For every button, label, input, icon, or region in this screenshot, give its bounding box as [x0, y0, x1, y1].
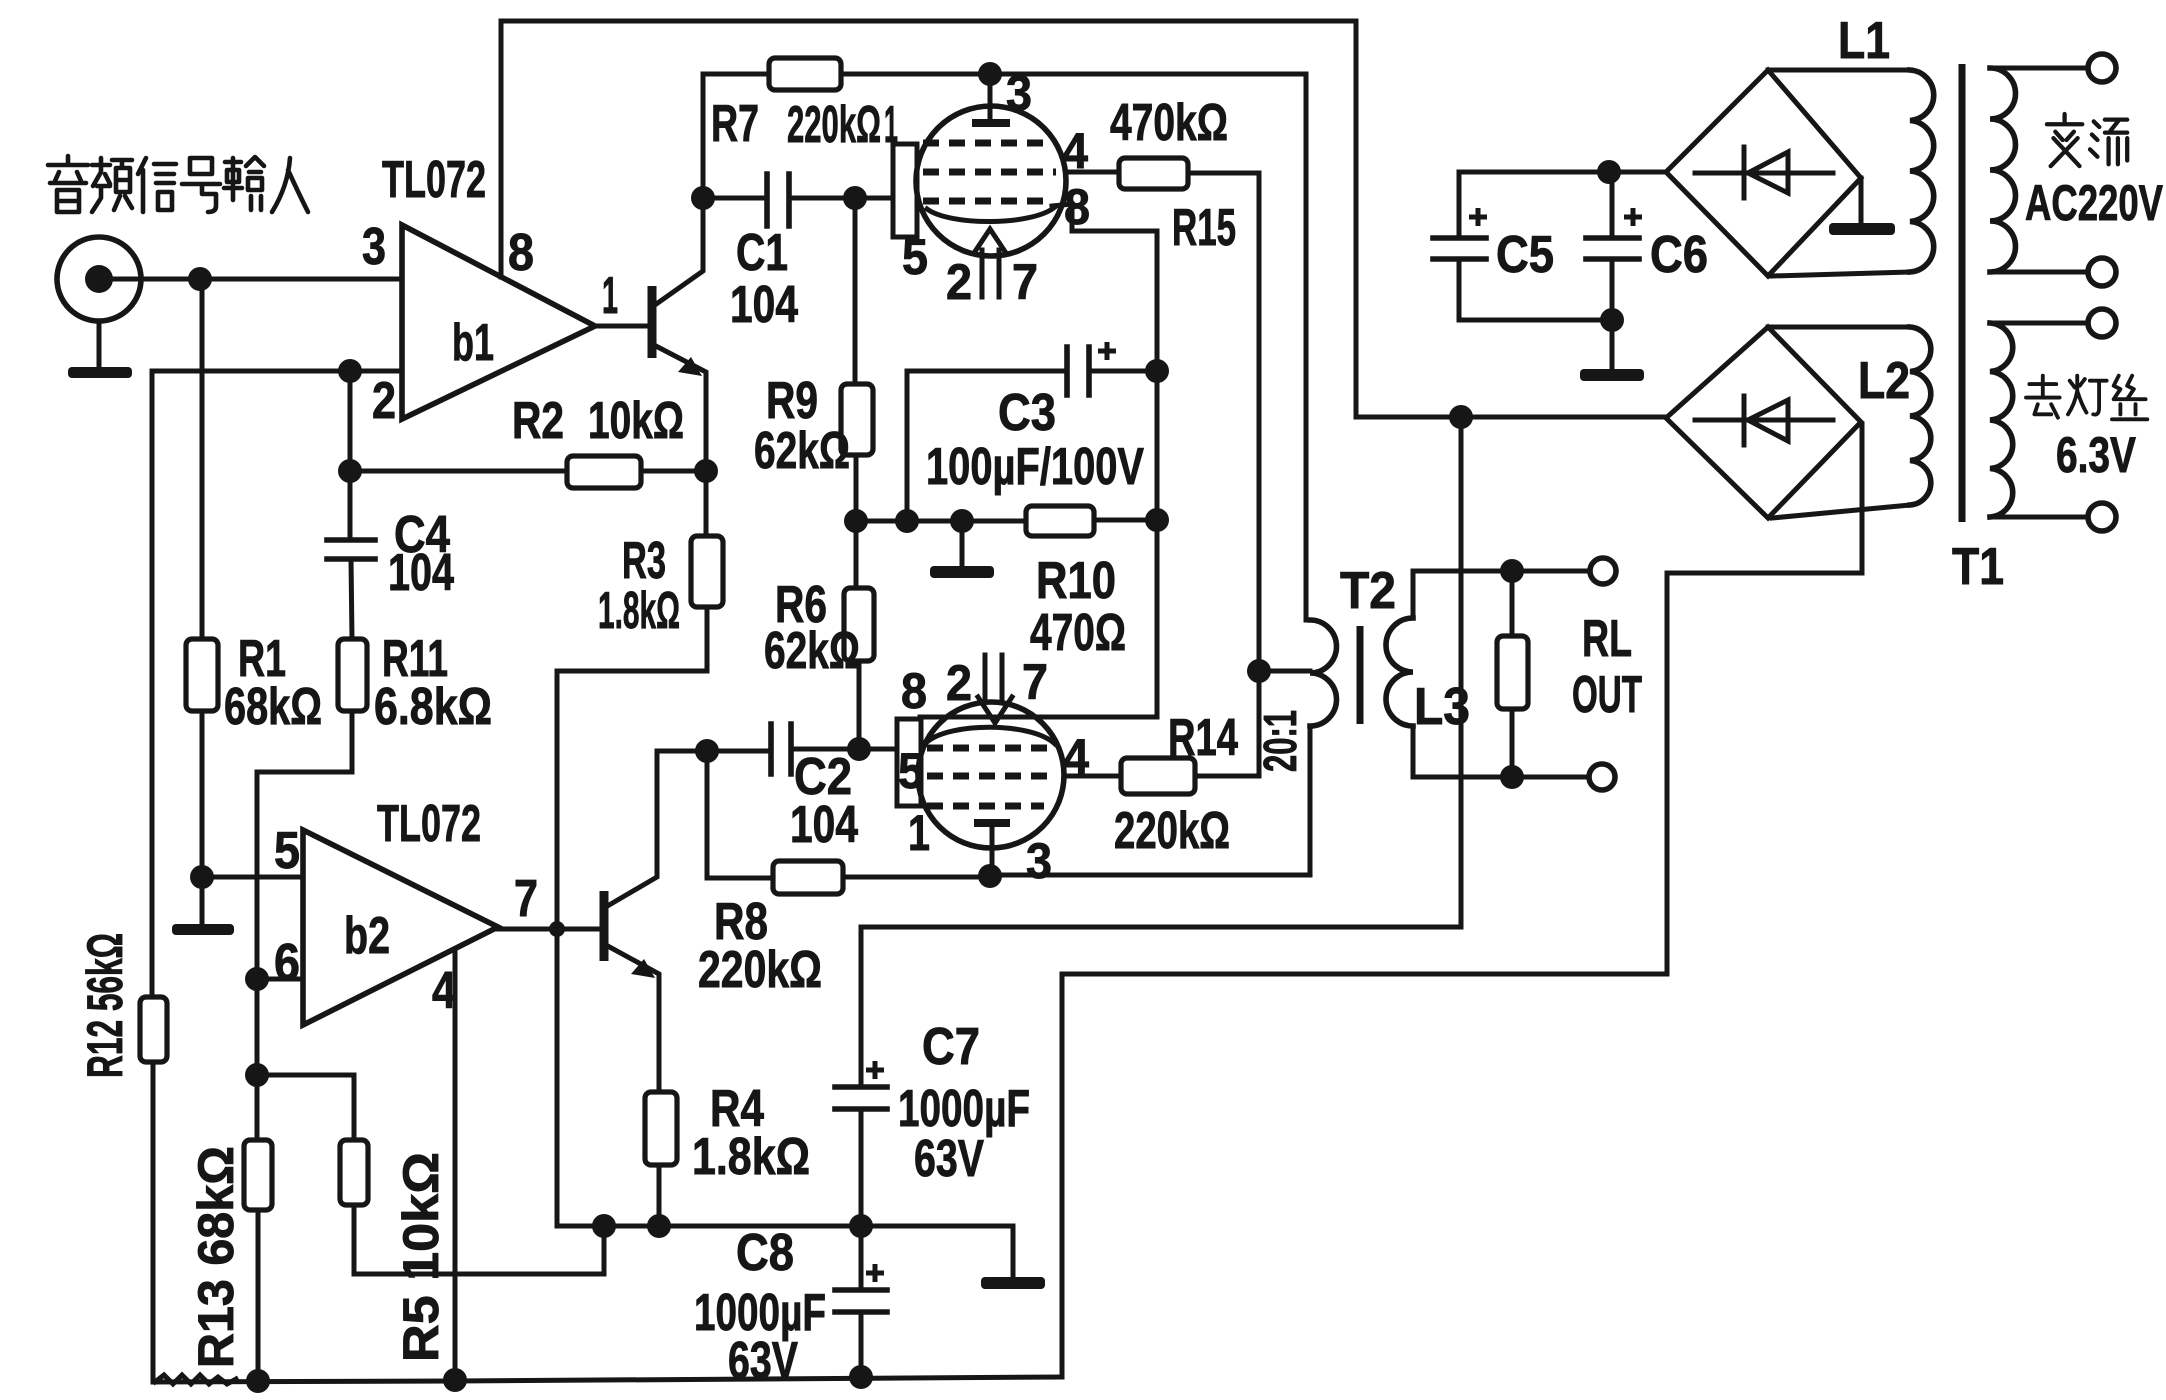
- svg-text:R2: R2: [512, 392, 564, 450]
- capacitor C4: [327, 540, 375, 639]
- resistor R7: [769, 58, 841, 90]
- winding L2: [1910, 327, 1931, 505]
- wire pin2 feedback rail: [152, 369, 402, 374]
- svg-text:7: 7: [1012, 254, 1038, 310]
- label C3 100µF/100V: [926, 384, 1144, 496]
- node R3/R5 bottom junction: [592, 1214, 616, 1238]
- node Q2 collector/C2/R8 junction: [695, 739, 719, 763]
- wire anode to T2 bottom: [990, 726, 1310, 875]
- resistor R11: [338, 639, 367, 711]
- svg-text:C3: C3: [998, 384, 1056, 442]
- svg-text:5: 5: [902, 229, 928, 285]
- terminal AC2: [2088, 258, 2116, 286]
- svg-text:220kΩ: 220kΩ: [698, 941, 822, 999]
- resistor R5: [340, 1140, 368, 1205]
- winding T1 6.3V secondary: [1990, 323, 2013, 517]
- label R1 68kΩ: [224, 630, 322, 736]
- transistor Q1: [595, 198, 706, 471]
- label R11 6.8kΩ: [374, 630, 492, 736]
- wire 6.3V bottom lead: [1990, 515, 2088, 520]
- svg-text:R15: R15: [1172, 199, 1236, 257]
- svg-text:T2: T2: [1340, 562, 1396, 620]
- label C1 104: [730, 224, 798, 334]
- wire BR2 right to common: [1062, 424, 1862, 1377]
- winding L1: [1910, 70, 1934, 272]
- resistor R15: [1119, 158, 1188, 189]
- wire R8 left lead: [707, 751, 773, 878]
- tube V1 grid box: [893, 144, 917, 237]
- label R6 62kΩ: [764, 576, 860, 680]
- svg-text:TL072: TL072: [377, 795, 481, 853]
- resistor R2: [567, 456, 641, 488]
- ground GND1: [68, 367, 132, 378]
- svg-text:C1: C1: [736, 224, 788, 282]
- svg-text:1: 1: [602, 267, 618, 325]
- svg-text:RL: RL: [1582, 610, 1632, 668]
- tube V1 anode stem: [988, 74, 993, 123]
- svg-text:3: 3: [1006, 65, 1032, 121]
- svg-text:TL072: TL072: [382, 151, 486, 209]
- resistor RL load: [1497, 571, 1528, 777]
- polarity + (C3): [1098, 342, 1116, 360]
- svg-text:104: 104: [730, 276, 798, 334]
- resistor R4: [645, 1092, 677, 1165]
- wire R9 bottom: [854, 455, 859, 521]
- svg-text:100µF/100V: 100µF/100V: [926, 438, 1144, 496]
- tube V1 cathode: [927, 207, 1055, 222]
- wire cathode bus y=521: [856, 519, 1026, 524]
- transistor Q2: [604, 751, 659, 1092]
- svg-text:R10: R10: [1036, 552, 1116, 610]
- connector J1 input jack: [57, 237, 141, 321]
- wire R7 left lead: [703, 74, 769, 198]
- tube V1 heater: [974, 229, 1006, 297]
- svg-text:1.8kΩ: 1.8kΩ: [692, 1128, 810, 1186]
- svg-text:R7: R7: [711, 95, 759, 153]
- node C6 bottom junction: [1600, 308, 1624, 332]
- wire L2 bottom to BR2: [1772, 505, 1910, 518]
- svg-text:104: 104: [388, 544, 454, 602]
- svg-text:AC220V: AC220V: [2025, 175, 2163, 231]
- ground GND2: [172, 924, 234, 935]
- node R4 bottom junction: [647, 1214, 671, 1238]
- node C6 junction: [1597, 160, 1621, 184]
- wire R11 to pin6 column: [257, 711, 352, 1140]
- resistor R3: [691, 536, 723, 607]
- capacitor C3: [1067, 347, 1089, 395]
- node pin2/C4 junction: [338, 359, 362, 383]
- wire branch to R5: [257, 1075, 354, 1140]
- label 去灯丝 (to heater): [2026, 376, 2147, 420]
- svg-text:T1: T1: [1952, 538, 2004, 596]
- wire L3 top to output: [1413, 571, 1590, 618]
- svg-text:8: 8: [1064, 179, 1090, 235]
- label 音频信号输入 (audio signal input): [48, 156, 308, 212]
- svg-text:C8: C8: [736, 1224, 794, 1282]
- tube V2 cathode: [927, 727, 1055, 744]
- node anode/R8/T2 junction: [978, 864, 1002, 888]
- ground GND3: [930, 566, 994, 578]
- label R8 220kΩ: [698, 893, 822, 999]
- polarity + (C5): [1469, 208, 1487, 226]
- svg-text:3: 3: [362, 218, 386, 276]
- wire C5/C6 bottoms: [1459, 259, 1612, 320]
- wire R8 right to anode node: [843, 875, 990, 880]
- wire C3 right: [1092, 369, 1157, 374]
- svg-text:10kΩ: 10kΩ: [588, 392, 684, 450]
- node input junction: [188, 267, 212, 291]
- svg-text:L1: L1: [1838, 12, 1890, 70]
- wire R3 bottom to C8 net: [557, 607, 1013, 1226]
- svg-text:6: 6: [274, 934, 300, 992]
- wire R12 to bottom rail: [151, 1062, 156, 1381]
- capacitor C8: [835, 1226, 887, 1378]
- svg-text:7: 7: [514, 870, 538, 928]
- node R9/R6 junction: [844, 509, 868, 533]
- label R10 470Ω: [1030, 552, 1126, 662]
- wire pin8 cathode to C3: [1052, 204, 1157, 716]
- resistor R10: [1026, 506, 1094, 536]
- node C2/R6 junction: [847, 737, 871, 761]
- terminal F1: [2088, 309, 2116, 337]
- tube V2 grid dashes: [927, 748, 1056, 806]
- svg-text:L2: L2: [1858, 352, 1910, 410]
- svg-text:63V: 63V: [914, 1130, 984, 1188]
- wire +V to C7: [861, 417, 1461, 1087]
- label C7 1000µF 63V: [898, 1018, 1030, 1188]
- transformer T2 primary winding: [1310, 620, 1337, 726]
- svg-text:6.3V: 6.3V: [2056, 427, 2137, 483]
- ground GND5: [981, 1226, 1045, 1289]
- wire pin5: [202, 875, 303, 880]
- wire rail squiggle: [155, 1375, 236, 1384]
- node C3 right junction: [1145, 359, 1169, 383]
- winding T1 AC primary: [1990, 68, 2016, 272]
- wire 6.3V top lead: [1990, 321, 2088, 326]
- svg-text:C7: C7: [922, 1018, 980, 1076]
- wire pin4 to rail: [453, 949, 458, 1381]
- transformer T2 core: [1357, 626, 1364, 724]
- capacitor C7: [835, 1061, 887, 1226]
- node R10 right junction: [1145, 508, 1169, 532]
- wire top supply rail: [501, 21, 1666, 417]
- wire stem to GND3: [960, 521, 965, 566]
- svg-text:C6: C6: [1650, 226, 1708, 284]
- label 交流 (AC): [2047, 114, 2127, 166]
- tube V1 anode plate: [972, 119, 1010, 127]
- wire R6 top lead: [854, 521, 859, 588]
- wire C3 left branch: [907, 371, 1064, 521]
- wire Q1 emitter to R3: [704, 471, 709, 536]
- node anode junction: [978, 62, 1002, 86]
- svg-text:8: 8: [901, 663, 927, 719]
- wire R13 to rail: [256, 1210, 261, 1381]
- transformer T2 secondary L3: [1386, 618, 1413, 726]
- tube V2 anode plate: [974, 819, 1010, 827]
- node emitter/R2/R3 junction: [694, 459, 718, 483]
- resistor R8: [773, 861, 843, 894]
- wire V2 cathode to R10 node: [920, 715, 1157, 720]
- svg-text:62kΩ: 62kΩ: [764, 622, 860, 680]
- tube V2 heater: [978, 655, 1012, 723]
- wire pin2 node down to C4: [348, 371, 353, 540]
- node output bottom junction: [1500, 765, 1524, 789]
- svg-text:7: 7: [1022, 654, 1048, 710]
- node crossing blob: [549, 921, 565, 937]
- svg-text:68kΩ: 68kΩ: [224, 678, 322, 736]
- wire anode rail: [841, 74, 1306, 620]
- label R7 220kΩ 1: [711, 95, 898, 154]
- node Q1 collector junction: [691, 186, 715, 210]
- wire jack to ground: [97, 321, 102, 367]
- svg-text:20:1: 20:1: [1254, 710, 1306, 772]
- svg-text:5: 5: [898, 743, 924, 799]
- wire down to R12: [150, 371, 155, 997]
- wire C1 to tube grid: [792, 196, 893, 201]
- svg-text:220kΩ: 220kΩ: [1114, 802, 1230, 860]
- bridge rectifier BR1: [1666, 70, 1861, 276]
- node R5 branch junction: [245, 1063, 269, 1087]
- wire R2 feedback: [350, 469, 567, 474]
- capacitor C5: [1433, 238, 1486, 259]
- terminal F2: [2088, 503, 2116, 531]
- wire R15 to T2 tap column: [1188, 173, 1259, 776]
- terminal AC1: [2088, 54, 2116, 82]
- wire pin4 to R15: [1066, 170, 1119, 175]
- wire collector node to C2: [657, 749, 768, 754]
- wire pin4 to R14: [1064, 774, 1121, 779]
- label R3 1.8kΩ: [598, 532, 680, 640]
- resistor R13: [244, 1140, 272, 1210]
- label R2 10kΩ: [512, 392, 684, 450]
- svg-text:3: 3: [1026, 833, 1052, 889]
- svg-text:2: 2: [946, 655, 972, 711]
- svg-text:470kΩ: 470kΩ: [1110, 94, 1228, 152]
- svg-text:C5: C5: [1496, 226, 1554, 284]
- resistor R1: [186, 639, 218, 711]
- svg-text:2: 2: [372, 372, 396, 430]
- wire R14 right to tap: [1195, 774, 1259, 779]
- svg-text:1: 1: [908, 805, 930, 861]
- svg-text:b1: b1: [452, 314, 494, 372]
- label C4 104: [388, 506, 454, 602]
- wire BR2 to L2 top: [1768, 325, 1910, 330]
- op-amp U1B b2 TL072: [303, 830, 498, 1025]
- wire AC top lead: [1990, 66, 2088, 71]
- transformer T1 core: [1959, 64, 1966, 522]
- resistor R12: [140, 997, 167, 1062]
- node R13 rail junction: [246, 1369, 270, 1393]
- capacitor C1: [767, 174, 789, 226]
- wire R1 bottom to b2 pin5 node: [200, 711, 205, 877]
- svg-text:4: 4: [432, 962, 456, 1020]
- node pin6 junction: [245, 967, 269, 991]
- node T2 tap junction: [1247, 659, 1271, 683]
- svg-text:104: 104: [790, 796, 858, 854]
- wire AC bottom lead: [1990, 270, 2088, 275]
- polarity + (C6): [1624, 208, 1642, 226]
- wire input down to R1: [200, 279, 205, 639]
- svg-text:L3: L3: [1414, 678, 1470, 736]
- svg-text:220kΩ: 220kΩ: [787, 96, 881, 154]
- ground GND-BR1: [1829, 178, 1895, 235]
- resistor R9: [841, 384, 873, 455]
- svg-text:1.8kΩ: 1.8kΩ: [598, 582, 680, 640]
- wire tap to T2: [1259, 669, 1310, 674]
- svg-text:b2: b2: [344, 907, 390, 965]
- tube V1 grid dashes: [923, 143, 1056, 201]
- resistor R14: [1121, 758, 1195, 794]
- node ground branch junction: [950, 509, 974, 533]
- svg-text:5: 5: [274, 822, 300, 880]
- wire BR1 output to C5/C6: [1459, 172, 1666, 238]
- svg-text:62kΩ: 62kΩ: [754, 422, 850, 480]
- wire stem to GND2: [200, 877, 205, 924]
- wire pin6: [257, 977, 303, 982]
- svg-text:6.8kΩ: 6.8kΩ: [374, 678, 492, 736]
- ground GND4: [1580, 320, 1644, 381]
- svg-text:R12 56kΩ: R12 56kΩ: [77, 933, 133, 1078]
- svg-text:R5 10kΩ: R5 10kΩ: [393, 1152, 449, 1362]
- svg-text:2: 2: [946, 254, 972, 310]
- terminal OUT+: [1590, 558, 1616, 584]
- wire bottom rail: [153, 1377, 1062, 1382]
- svg-text:OUT: OUT: [1572, 666, 1642, 724]
- wire BR1 to L1 top: [1768, 68, 1910, 73]
- node output top junction: [1500, 559, 1524, 583]
- wire C2 to tube2 grid: [794, 747, 897, 752]
- label R4 1.8kΩ: [692, 1080, 810, 1186]
- svg-text:R13 68kΩ: R13 68kΩ: [188, 1146, 244, 1368]
- capacitor C6: [1586, 238, 1639, 259]
- label C2 104: [790, 748, 858, 854]
- wire R4 bottom: [657, 1165, 662, 1226]
- tube V2 grid box: [897, 719, 921, 806]
- node R2 left junction: [338, 459, 362, 483]
- wire R2 right to emitter node: [641, 469, 706, 474]
- terminal OUT-: [1589, 764, 1615, 790]
- wire C1 coupling: [703, 196, 764, 201]
- svg-text:8: 8: [508, 224, 534, 282]
- bridge rectifier BR2: [1666, 327, 1861, 518]
- tube V2 2117 envelope: [918, 702, 1064, 848]
- resistor R6: [844, 588, 874, 661]
- node C3 branch junction: [895, 509, 919, 533]
- wire L3 bottom to output: [1413, 726, 1589, 777]
- wire L1 bottom to BR1: [1772, 272, 1910, 276]
- tube V1 2117 envelope: [916, 106, 1066, 256]
- op-amp U1A b1 TL072: [402, 225, 595, 419]
- wire C6 stem: [1610, 172, 1615, 238]
- wire pin7 output to Q2 base: [498, 927, 604, 932]
- tube V2 anode stem: [990, 823, 995, 875]
- node pin4 rail junction: [443, 1368, 467, 1392]
- label R9 62kΩ: [754, 372, 850, 480]
- wire pin8 to top rail: [499, 21, 504, 277]
- node C8 rail junction: [849, 1365, 873, 1389]
- svg-text:R14: R14: [1168, 709, 1238, 767]
- node C7/C8 junction: [849, 1214, 873, 1238]
- capacitor C2: [771, 724, 791, 774]
- label C8 1000µF 63V: [694, 1224, 826, 1390]
- wire R10 right lead: [1094, 518, 1157, 523]
- wire R5 bottom to C8 net: [354, 1205, 604, 1274]
- node +V drop junction: [1449, 405, 1473, 429]
- wire R9 top lead: [853, 198, 858, 384]
- node C1/R9 junction: [843, 186, 867, 210]
- wire input to pin3: [113, 277, 402, 282]
- node pin5 junction: [190, 865, 214, 889]
- wire R6 bottom to grid node: [857, 661, 862, 748]
